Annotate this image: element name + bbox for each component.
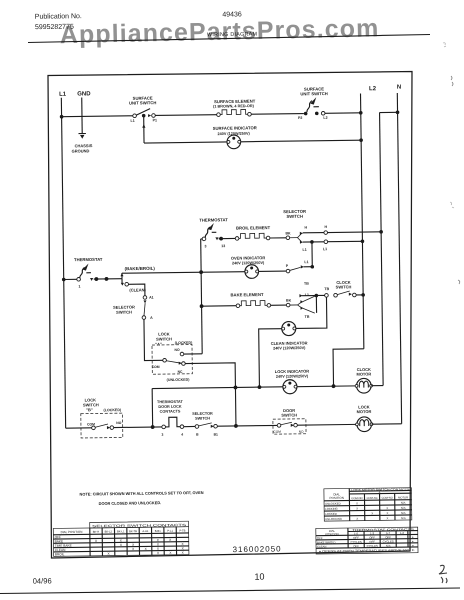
svg-text:LOCKED: LOCKED [325, 512, 337, 516]
surface indicator lamp [227, 135, 241, 149]
svg-text:COM: COM [273, 430, 281, 434]
wire arrow to lower TB diagonal [303, 308, 315, 313]
svg-text:P2: P2 [298, 116, 302, 120]
surface element terminal [248, 112, 252, 116]
lock switch A contact arrow [179, 362, 182, 365]
thermostat TH1 sensing contact [80, 267, 85, 277]
svg-text:UNLOCKING: UNLOCKING [325, 517, 342, 521]
arrow below A1 [143, 300, 146, 303]
svg-text:SWITCH: SWITCH [116, 310, 132, 315]
surface unit switch SW2 cycling contact [307, 101, 312, 112]
oven indicator lamp [245, 265, 259, 279]
svg-text:LOCK MOTOR SWITCH CONTACTS: LOCK MOTOR SWITCH CONTACTS [351, 487, 409, 492]
header rule [28, 35, 430, 43]
selector contact arrow B1 [211, 425, 214, 428]
svg-text:DOOR LOCK: DOOR LOCK [158, 405, 182, 409]
junction dots after TH1 [94, 277, 98, 281]
clock motor M1 [355, 378, 373, 393]
thermostat TH2 sensing contact [205, 227, 210, 237]
wire N branch jog [380, 111, 398, 113]
svg-text:COM: COM [152, 365, 160, 369]
handwritten mark bottom right [439, 565, 447, 583]
wire H row to inner branch [328, 231, 382, 234]
thermostat TH2 contact arrow [215, 237, 218, 240]
svg-text:MOTOR: MOTOR [356, 371, 371, 376]
svg-text:L1: L1 [304, 260, 308, 264]
junction surface row / L2 [359, 111, 363, 115]
svg-text:240V (120W/250V): 240V (120W/250V) [273, 346, 306, 350]
lock switch A terminal COM [163, 358, 167, 362]
junction L1 row / ladder vertical [310, 240, 314, 244]
wire lock indicator row [152, 387, 283, 389]
svg-text:CLEAN: CLEAN [317, 545, 326, 549]
wire B1 to junction [217, 425, 236, 427]
selector terminal BK (broil) [286, 236, 290, 240]
selector contact arrow TB row [299, 294, 302, 297]
wire clock switch to L2 [356, 294, 363, 296]
selector terminal (clean) [125, 282, 129, 286]
surface unit switch SW1 blade [136, 109, 150, 116]
bake element terminal [267, 303, 271, 307]
junction lock row / clean drop [258, 385, 262, 389]
lock motor M2 [355, 417, 373, 432]
wire lock indicator to clock motor [297, 385, 357, 388]
surface unit switch SW2 terminal L2 [321, 111, 325, 115]
lock motor switch contacts table [324, 488, 412, 521]
svg-text:COM-NC: COM-NC [367, 496, 378, 500]
bake element heater [240, 301, 267, 306]
arrow clean branch [121, 283, 124, 286]
svg-text:3: 3 [204, 244, 206, 248]
bake element terminal [236, 304, 240, 308]
surface element heater [220, 109, 247, 114]
svg-text:LOCKING: LOCKING [325, 507, 338, 511]
junction H row / inner branch [379, 230, 383, 234]
selector terminal A1 [143, 296, 147, 300]
svg-text:P-TB: P-TB [179, 529, 185, 533]
wire A down to lock switch A [144, 319, 163, 360]
svg-text:THERMOSTAT: THERMOSTAT [157, 400, 184, 404]
selector switch contacts table [53, 521, 189, 556]
svg-text:BK: BK [286, 299, 292, 303]
svg-text:P1: P1 [153, 118, 157, 122]
svg-text:DOOR CLOSED AND UNLOCKED.: DOOR CLOSED AND UNLOCKED. [99, 500, 162, 506]
surface element terminal [217, 113, 221, 117]
svg-text:(CLEAN): (CLEAN) [129, 287, 146, 292]
svg-text:B-B1: B-B1 [155, 529, 162, 533]
svg-text:N: N [397, 85, 401, 91]
svg-text:X: X [386, 506, 388, 510]
surface unit switch SW2 contact dot [315, 112, 319, 116]
selector row H wire [303, 232, 324, 234]
selector contact arrows bake [300, 300, 303, 303]
svg-text:NO: NO [299, 430, 304, 434]
svg-text:CYCLES: CYCLES [367, 544, 378, 548]
svg-text:N/A: N/A [401, 516, 406, 520]
svg-text:OVEN INDICATOR: OVEN INDICATOR [231, 255, 265, 260]
svg-text:49436: 49436 [222, 11, 242, 18]
wire clean indicator right riser [295, 297, 327, 328]
junction N / branch [396, 110, 400, 114]
arrow on riser [142, 124, 145, 128]
thermostat TH1 terminal 1 [77, 277, 81, 281]
svg-text:L1: L1 [305, 293, 309, 297]
lock switch B dashed box [81, 413, 123, 438]
svg-text:SWITCH: SWITCH [281, 412, 297, 417]
door lock contact terminal 3 [162, 425, 166, 429]
junction ladder / P row [310, 265, 314, 269]
svg-text:240V (120W/250V): 240V (120W/250V) [232, 261, 265, 265]
selector contact arrows BK [300, 232, 303, 235]
junction dot after TH2 [219, 237, 223, 241]
svg-text:POSITION: POSITION [325, 532, 338, 536]
svg-text:LOCK INDICATOR: LOCK INDICATOR [275, 369, 309, 374]
selector row L1 wire [303, 241, 324, 243]
svg-text:NC: NC [178, 370, 184, 374]
thermostat contacts table [316, 527, 418, 554]
svg-text:X: X [356, 506, 358, 510]
door switch terminal NO [294, 423, 298, 427]
svg-text:240V (120W/250V): 240V (120W/250V) [276, 374, 309, 378]
wire riser to surface indicator [143, 116, 145, 143]
svg-text:A1: A1 [149, 296, 154, 300]
selector terminal B [195, 425, 199, 429]
wire N vertical bus [397, 93, 401, 424]
wire lock switch B to contact 3 [114, 426, 162, 429]
door switch terminal COM [277, 424, 281, 428]
junction bottom row / NC riser [234, 424, 238, 428]
door lock contact terminal 4 [180, 425, 184, 429]
broil element terminal [266, 236, 270, 240]
svg-text:CLEAN INDICATOR: CLEAN INDICATOR [271, 340, 308, 345]
wire clean branch stub [121, 279, 123, 285]
svg-text:3: 3 [161, 433, 163, 437]
wire oven vertical feed [201, 239, 203, 354]
svg-text:BK-TB: BK-TB [129, 529, 137, 533]
svg-text:N/A: N/A [386, 544, 391, 548]
wire GND stub [81, 97, 83, 133]
schematic border frame [48, 72, 412, 559]
svg-text:COM: COM [87, 422, 95, 426]
door lock contact hump [165, 417, 180, 427]
svg-text:L2: L2 [323, 116, 327, 120]
selector terminal H [324, 231, 328, 235]
svg-text:THERMOSTAT: THERMOSTAT [199, 217, 228, 222]
junction indicator row / L2 [359, 138, 363, 142]
svg-text:CONTACTS: CONTACTS [160, 409, 181, 413]
wire selector ladder vertical [311, 242, 313, 267]
svg-text:NO: NO [116, 421, 122, 425]
junction TB row / riser [315, 294, 319, 298]
svg-text:BK-L1: BK-L1 [117, 529, 125, 533]
wire clock motor to N branch [371, 385, 383, 387]
svg-text:WIRING DIAGRAM: WIRING DIAGRAM [207, 32, 258, 39]
svg-text:A: A [150, 316, 153, 320]
lock switch B terminal COM [92, 426, 96, 430]
selector terminal B1 [214, 424, 218, 428]
junction SW1 pole [142, 114, 146, 118]
wire clean indicator left drop [259, 329, 283, 387]
svg-text:4: 4 [181, 433, 183, 437]
svg-text:316002050: 316002050 [232, 544, 281, 554]
svg-text:UNIT SWITCH: UNIT SWITCH [300, 91, 328, 96]
svg-text:L1: L1 [323, 247, 327, 251]
svg-text:TB: TB [324, 287, 329, 291]
svg-text:GROUND: GROUND [72, 148, 90, 153]
wire branch riser up [121, 273, 123, 279]
ground chassis symbol [79, 133, 86, 138]
selector blade B-B1 [199, 423, 212, 426]
svg-text:NO: NO [174, 348, 180, 352]
selector terminal BK (bake) [286, 303, 290, 307]
surface unit switch SW1 contact arrow [148, 114, 151, 117]
svg-text:BROIL: BROIL [55, 552, 65, 556]
selector terminal TB [325, 294, 329, 298]
broil element terminal [235, 237, 239, 241]
wire L1 vertical bus [61, 98, 65, 428]
selector terminal A [142, 316, 146, 320]
selector terminal P [286, 269, 290, 273]
svg-text:L2: L2 [369, 86, 377, 92]
clock switch contact arrow [349, 293, 352, 296]
svg-text:SURFACE INDICATOR: SURFACE INDICATOR [213, 125, 257, 131]
svg-text:5995282775: 5995282775 [35, 24, 74, 32]
svg-text:COM-NO: COM-NO [351, 496, 362, 500]
svg-text:"A": "A" [155, 342, 162, 347]
svg-text:X: X [371, 511, 373, 515]
door switch dashed box [273, 419, 306, 434]
svg-text:X: X [386, 511, 388, 515]
selector blade P [290, 267, 301, 270]
svg-text:POSITION: POSITION [330, 496, 344, 500]
svg-text:Publication No.: Publication No. [35, 13, 82, 21]
wire NC to riser [185, 363, 236, 427]
wire L1 row to L2 bus [328, 240, 363, 242]
junction L1 / surface row [60, 115, 64, 119]
wire L1 to thermostat [64, 278, 77, 280]
selector blade A1-A [144, 303, 145, 315]
wire element to right switch [251, 113, 304, 116]
wire 4 to selector B [184, 425, 195, 427]
svg-text:N/A: N/A [401, 501, 406, 505]
svg-text:BROIL ELEMENT: BROIL ELEMENT [236, 225, 271, 230]
svg-text:L1: L1 [131, 119, 135, 123]
clock switch terminal [334, 293, 338, 297]
door switch blade [281, 422, 292, 425]
lock switch A dashed box [152, 345, 192, 375]
svg-text:DIAL POSITION: DIAL POSITION [61, 530, 83, 534]
svg-text:OFF: OFF [353, 544, 359, 548]
scanner smudge marks right edge [443, 43, 446, 47]
wire TH1 to branch node [94, 278, 122, 280]
svg-text:L1: L1 [303, 248, 307, 252]
svg-text:SWITCH: SWITCH [286, 214, 303, 219]
junction clock switch / L2 [361, 293, 365, 297]
selector contact arrow P row [301, 265, 304, 268]
svg-text:BK: BK [285, 231, 291, 235]
svg-text:13: 13 [221, 244, 225, 248]
wire L2 jog to lock row [333, 349, 364, 386]
wire bake element to BK [271, 304, 287, 306]
lock switch A terminal NC [182, 362, 186, 366]
surface unit switch SW1 terminal L1 [133, 114, 137, 118]
svg-text:GND: GND [77, 91, 91, 97]
wire L1 to lock switch B [66, 427, 92, 429]
clock switch blade [337, 291, 350, 295]
wire arrow to TB node diagonal [303, 295, 316, 301]
lock switch B contact arrow [107, 426, 110, 429]
lock switch A terminal NO [180, 352, 184, 356]
lock indicator lamp [283, 380, 297, 394]
wire indicator row right to L2 [241, 140, 361, 142]
wire bake-broil feed row [122, 272, 245, 274]
wire lock row left riser [151, 389, 154, 427]
svg-text:TB: TB [304, 282, 309, 286]
wire L2 vertical bus [361, 94, 364, 349]
svg-text:(UNLOCKED): (UNLOCKED) [167, 378, 191, 382]
svg-text:(1 BROWN, 4 RED-OR): (1 BROWN, 4 RED-OR) [213, 104, 254, 109]
wire lock motor to N [372, 423, 402, 425]
svg-text:BAKE ELEMENT: BAKE ELEMENT [230, 292, 264, 297]
junction feed / oven vertical [199, 270, 203, 274]
junction L1 row / L2 [361, 239, 365, 243]
surface unit switch SW1 terminal P1 [152, 114, 156, 118]
selector terminal L1 [324, 240, 328, 244]
svg-text:H: H [304, 226, 307, 230]
svg-text:SWITCH: SWITCH [336, 284, 352, 289]
lock switch B terminal NO [110, 426, 114, 430]
selector row TB wire [302, 295, 315, 297]
junction lock row / L2 jog [332, 384, 336, 388]
wire L1 to surface switch [62, 115, 133, 118]
junction L1 / thermostat row [62, 278, 66, 282]
selector BK bake blade stubs [290, 304, 298, 306]
svg-text:1-6: 1-6 [400, 531, 405, 535]
svg-text:A: A [379, 490, 381, 494]
svg-text:COM-NO: COM-NO [382, 496, 393, 500]
wire TB row to terminal [318, 294, 325, 296]
wire NO to oven feed vertical [184, 353, 202, 355]
svg-text:(BAKE/BROIL): (BAKE/BROIL) [125, 266, 156, 271]
svg-text:A-A1: A-A1 [142, 529, 149, 533]
wire door switch to lock motor [297, 423, 357, 426]
wire broil to selector BK [270, 237, 286, 239]
svg-text:H: H [324, 225, 327, 229]
wire TH2 to broil element [219, 237, 236, 239]
arrow on branch riser [120, 273, 123, 276]
broil element heater [239, 233, 266, 238]
svg-text:SELECTOR: SELECTOR [192, 412, 213, 416]
svg-text:BK-H: BK-H [93, 530, 100, 534]
svg-text:"B": "B" [86, 407, 93, 412]
svg-text:X: X [356, 501, 358, 505]
svg-text:MOTOR: MOTOR [357, 409, 372, 414]
wire bake row [202, 305, 237, 307]
svg-text:UNLOCKED: UNLOCKED [325, 502, 341, 506]
wire P1 to surface element [155, 114, 216, 117]
thermostat TH2 terminal 3 [202, 237, 206, 241]
svg-text:N/A: N/A [401, 511, 406, 515]
door switch contact arrow [291, 424, 294, 427]
wire junction to door switch [236, 424, 277, 427]
junction bottom row / lock riser [151, 425, 155, 429]
clock switch terminal [353, 293, 357, 297]
svg-text:1: 1 [78, 285, 80, 289]
svg-text:UNIT SWITCH: UNIT SWITCH [129, 100, 157, 105]
wire indicator row left [144, 142, 227, 143]
svg-text:P-L1: P-L1 [167, 529, 173, 533]
svg-text:TB: TB [305, 315, 310, 319]
svg-text:THERMOSTAT CONTACTS: THERMOSTAT CONTACTS [352, 527, 414, 532]
wire SW2 to L2 bus [325, 112, 361, 114]
svg-text:(LOCKED): (LOCKED) [104, 408, 122, 412]
wire inner N branch vertical [380, 113, 384, 386]
lock switch A blade [166, 361, 180, 364]
lock switch B blade [95, 424, 108, 427]
junction lock row / NC riser [234, 386, 238, 390]
svg-text:MOTOR: MOTOR [398, 495, 408, 499]
svg-text:N/A: N/A [401, 506, 406, 510]
svg-text:SWITCH: SWITCH [195, 416, 210, 420]
svg-text:10: 10 [254, 572, 264, 582]
svg-text:THERMOSTAT: THERMOSTAT [74, 257, 103, 262]
svg-text:B1: B1 [214, 433, 219, 437]
clean indicator lamp [282, 321, 296, 335]
selector row P wire [304, 266, 313, 268]
junction feed / bake row [200, 304, 204, 308]
wire to TH2 [201, 238, 202, 240]
selector BK blade stubs [290, 237, 298, 239]
wire clean branch to A1 [128, 284, 144, 296]
thermostat TH1 contact arrow [90, 278, 93, 281]
footer rule [0, 588, 460, 594]
wire oven indicator to P terminal [259, 270, 287, 272]
svg-text:X: X [387, 516, 389, 520]
surface unit switch SW2 terminal P2 [304, 112, 308, 116]
svg-text:04/96: 04/96 [33, 576, 52, 585]
svg-text:X: X [356, 517, 358, 521]
svg-text:L1: L1 [59, 92, 67, 98]
svg-text:BK-L2: BK-L2 [105, 529, 113, 533]
wire TB riser [315, 295, 317, 312]
